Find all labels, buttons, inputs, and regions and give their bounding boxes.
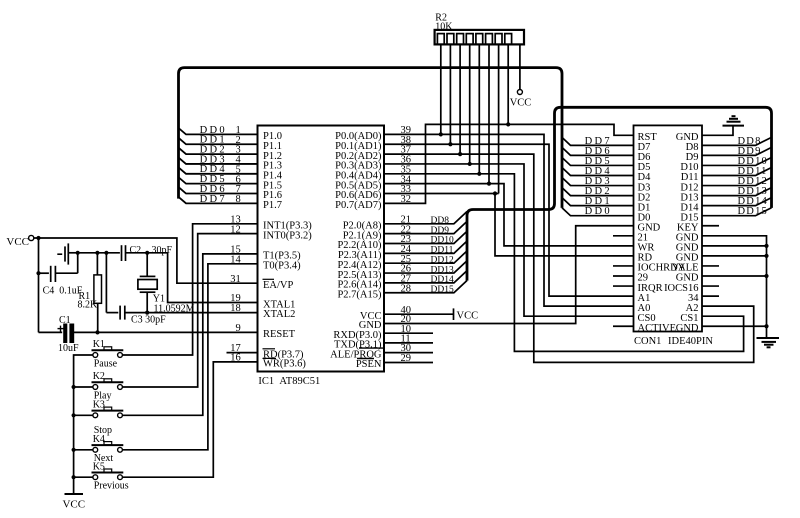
svg-text:K5: K5 — [93, 461, 105, 472]
bus DD0-DD7 (MCU P1 to IDE D0-D7) — [179, 68, 563, 208]
wire stub MCU pin 17 RD — [227, 352, 258, 354]
svg-text:DD11: DD11 — [431, 246, 454, 256]
wire stub CON1 21 — [613, 235, 634, 237]
svg-text:DD15: DD15 — [431, 285, 454, 295]
node junction rail — [72, 475, 76, 479]
node junction C3 branch — [104, 251, 108, 255]
wire IDE D11 to bus DD11 — [702, 168, 772, 176]
wire MCU pin 26 P2.5 to bus DD13 — [384, 261, 467, 273]
wire P0.1/AD1 (pin38) to IDE A1 — [384, 144, 634, 296]
resistor R1 8.2K — [96, 253, 98, 275]
svg-text:VCC: VCC — [6, 236, 29, 248]
svg-text:K1: K1 — [93, 339, 105, 350]
wire MCU pin 23 P2.2 to bus DD10 — [384, 231, 467, 243]
svg-text:C4 0.1uF: C4 0.1uF — [43, 286, 83, 297]
svg-text:IDE40PIN: IDE40PIN — [668, 336, 713, 347]
svg-text:IC1 AT89C51: IC1 AT89C51 — [258, 376, 320, 387]
svg-text:DD15: DD15 — [738, 206, 768, 217]
resistor R2 element 7 — [495, 34, 502, 45]
svg-text:T0(P3.4): T0(P3.4) — [263, 261, 301, 272]
wire CON1 GND row 12 — [702, 245, 767, 247]
wire P0.5/AD5 (pin34) to IDE WR — [384, 184, 634, 246]
wire IDE D15 to bus DD15 — [702, 208, 772, 216]
crystal Y1 11.0592M — [146, 253, 148, 277]
pushbutton K4 Next — [93, 447, 98, 452]
wire P0.3/AD3 (pin36) to IDE CS0 — [384, 164, 634, 316]
svg-text:INT0(P3.2): INT0(P3.2) — [263, 230, 312, 241]
svg-text:DD8: DD8 — [431, 216, 450, 226]
wire MCU pin 14 T0 to K4 — [122, 264, 257, 450]
wire P0.4/AD4 (pin35) to IDE CS1 — [384, 174, 744, 352]
resistor R2 element 1 — [437, 34, 444, 45]
svg-text:30pF: 30pF — [152, 245, 173, 256]
node junction Y1 top / XTAL1 — [145, 251, 149, 255]
node junction R2 pin 4 — [468, 162, 472, 166]
wire IDE D9 to bus DD9 — [702, 147, 772, 155]
svg-text:GND: GND — [676, 323, 699, 334]
wire P0.0/AD0 (pin39) to IDE A0 — [384, 134, 634, 306]
wire XTAL1 node to MCU pin 19 — [168, 253, 258, 303]
wire IDE D13 to bus DD13 — [702, 188, 772, 196]
wire stub CON1 YALE — [702, 265, 719, 267]
node junction R2 pin 3 — [458, 152, 462, 156]
node junction Y1 bottom / XTAL2 — [145, 311, 149, 315]
svg-text:P2.7(A15): P2.7(A15) — [337, 289, 382, 300]
svg-text:RESET: RESET — [263, 329, 296, 340]
svg-text:DD0: DD0 — [585, 206, 612, 217]
capacitor C3 30pF — [105, 253, 107, 313]
wire bus entry DD1 to MCU pin 2 — [179, 138, 258, 144]
svg-text:C1: C1 — [59, 315, 71, 326]
wire bus entry DD2 to IDE D2 — [562, 188, 634, 196]
wire IDE D14 to bus DD14 — [702, 198, 772, 206]
resistor R2 element 2 — [447, 34, 454, 45]
wire rail to button — [74, 386, 93, 388]
svg-text:K4: K4 — [93, 434, 105, 445]
svg-text:DD12: DD12 — [431, 255, 454, 265]
node junction GND rail — [764, 254, 768, 258]
wire bus entry DD6 to MCU pin 7 — [179, 187, 258, 193]
wire MCU pin 15 T1 to K3 — [122, 254, 257, 415]
wire P0.6/AD6 (pin33) to IDE RD — [384, 193, 499, 195]
node junction R2 pin 5 — [477, 172, 481, 176]
wire MCU pin20 GND to IDE GND — [384, 226, 634, 324]
svg-text:EA/VP: EA/VP — [263, 280, 293, 291]
wire R2 pin 6 down — [488, 44, 490, 183]
node junction GND rail — [764, 274, 768, 278]
node junction R1 bottom / RESET — [95, 330, 99, 334]
wire RESET node to MCU pin 9 — [74, 331, 258, 333]
capacitor C4 0.1uF — [39, 272, 49, 274]
svg-text:VCC: VCC — [62, 499, 85, 511]
svg-text:8.2K: 8.2K — [78, 300, 99, 311]
svg-text:VCC: VCC — [457, 310, 479, 321]
node junction R2 pin 2 — [448, 142, 452, 146]
wire bus entry DD5 to MCU pin 6 — [179, 177, 258, 183]
IC IC1 AT89C51 microcontroller — [258, 126, 385, 372]
wire stub CON1 ACTIVE — [613, 325, 634, 327]
power VCC at MCU pin 40 — [384, 313, 454, 315]
wire MCU pin 27 P2.6 to bus DD14 — [384, 271, 467, 283]
svg-text:DD14: DD14 — [431, 275, 454, 285]
wire bus entry DD2 to MCU pin 3 — [179, 148, 258, 154]
wire CON1 GND row 20 — [702, 325, 767, 327]
node junction rail — [72, 413, 76, 417]
node junction R1 top — [95, 251, 99, 255]
svg-text:WR(P3.6): WR(P3.6) — [263, 359, 306, 370]
wire stub CON1 KEY — [702, 225, 719, 227]
pushbutton K2 Play — [93, 385, 98, 390]
wire bus entry DD4 to IDE D4 — [562, 168, 634, 176]
node junction GND rail — [764, 244, 768, 248]
resistor R2 element 3 — [457, 34, 464, 45]
wire IDE D10 to bus DD10 — [702, 157, 772, 165]
wire MCU pin 28 P2.7 to bus DD15 — [384, 280, 467, 292]
wire bus entry DD7 to MCU pin 8 — [179, 197, 258, 203]
wire IDE D8 to bus DD8 — [702, 137, 772, 145]
resistor R2 element 4 — [466, 34, 473, 45]
wire bus entry DD0 to IDE D0 — [562, 208, 634, 216]
node junction R2 pin 7 — [493, 191, 497, 195]
wire P0.7/AD7 (pin32) to IDE RST — [384, 124, 634, 203]
wire rail to button — [74, 449, 93, 451]
svg-text:C3 30pF: C3 30pF — [131, 314, 166, 325]
wire stub CON1 IRQR — [613, 285, 634, 287]
svg-text:DD7: DD7 — [200, 194, 227, 205]
node junction rail — [72, 385, 76, 389]
wire R2 pin 2 down — [449, 44, 451, 144]
wire MCU pin 12 INT0 to K2 — [122, 234, 257, 387]
wire stub CON1 29 — [613, 275, 634, 277]
svg-text:DD9: DD9 — [431, 226, 450, 236]
svg-text:10uF: 10uF — [58, 343, 79, 354]
wire MCU pin 13 INT1 to K1 — [122, 224, 257, 355]
wire IDE D12 to bus DD12 — [702, 178, 772, 186]
svg-text:Previous: Previous — [94, 481, 129, 492]
wire stub MCU pin 30 — [384, 352, 433, 354]
pushbutton K1 Pause — [93, 353, 98, 358]
svg-text:ACTIVE: ACTIVE — [638, 323, 677, 334]
node junction GND rail — [764, 324, 768, 328]
wire XTAL2 node to MCU pin 18 — [125, 312, 258, 314]
svg-text:VCC: VCC — [510, 97, 532, 108]
wire rail to button — [74, 476, 93, 478]
svg-text:K3: K3 — [93, 399, 105, 410]
capacitor (polarized, top left) — [57, 253, 62, 255]
svg-text:P1.7: P1.7 — [263, 200, 282, 211]
wire C4 to node row — [77, 253, 79, 273]
ground (bottom right) — [757, 337, 780, 339]
wire bus entry DD0 to MCU pin 1 — [179, 128, 258, 134]
bus DD8-DD15 (MCU P2 to IDE D8-D15) — [467, 107, 772, 280]
wire node row to C2 — [78, 252, 120, 254]
wire VCC branch down (left) — [38, 238, 40, 332]
svg-text:DD10: DD10 — [431, 236, 454, 246]
node junction C4 row — [36, 271, 40, 275]
wire stub CON1 IOCS16 — [702, 285, 719, 287]
wire R2 pin 7 down — [498, 44, 500, 193]
resistor R2 element 8 — [505, 34, 512, 45]
power VCC for R2 — [519, 44, 521, 89]
wire bus entry DD3 to IDE D3 — [562, 178, 634, 186]
pushbutton K5 Previous — [93, 475, 98, 480]
capacitor C1 10uF (electrolytic) — [39, 331, 63, 333]
capacitor C2 30pF — [121, 245, 123, 261]
wire R2 pin 4 down — [469, 44, 471, 164]
wire stub CON1 IOCHRDY — [613, 265, 634, 267]
wire bus entry DD6 to IDE D6 — [562, 147, 634, 155]
node junction node row / C4 — [76, 251, 80, 255]
wire bus entry DD4 to MCU pin 5 — [179, 167, 258, 173]
svg-text:PSEN: PSEN — [356, 359, 382, 370]
svg-text:C2: C2 — [130, 245, 142, 256]
wire rail to button — [74, 414, 93, 416]
wire bus entry DD3 to MCU pin 4 — [179, 158, 258, 164]
wire MCU pin 25 P2.4 to bus DD12 — [384, 251, 467, 263]
wire R2 pin 3 down — [459, 44, 461, 154]
power VCC (bottom of button rail) — [65, 493, 84, 495]
node junction R2 pin 8 — [506, 122, 510, 126]
wire R2 pin 8 down — [507, 44, 509, 124]
svg-text:K2: K2 — [93, 371, 105, 382]
node junction rail — [72, 448, 76, 452]
wire MCU pin 21 P2.0 to bus DD8 — [384, 212, 467, 224]
wire R2 pin 5 down — [478, 44, 480, 173]
resistor R2 element 5 — [476, 34, 483, 45]
wire bus entry DD7 to IDE D7 — [562, 137, 634, 145]
wire VCC rail to MCU pin 31 EA/VP — [34, 238, 258, 283]
wire button common rail — [74, 355, 93, 494]
wire P0.2/AD2 (pin37) to IDE A2 — [384, 154, 754, 362]
wire MCU pin 16 WR to K5 — [122, 362, 257, 477]
wire bus entry DD1 to IDE D1 — [562, 198, 634, 206]
pushbutton K3 Stop — [93, 413, 98, 418]
resistor R2 element 6 — [486, 34, 493, 45]
wire R2 pin 1 down — [440, 44, 442, 134]
ground (inverted, above CON1) — [702, 126, 733, 135]
svg-text:DD13: DD13 — [431, 265, 454, 275]
node junction R2 pin 6 — [487, 182, 491, 186]
node junction R2 pin 1 — [439, 132, 443, 136]
wire CON1 GND row 15 — [702, 275, 767, 277]
wire stub CON1 34 — [702, 295, 719, 297]
wire CON1 GND rail (right) — [702, 236, 767, 338]
svg-text:P0.7(AD7): P0.7(AD7) — [335, 200, 382, 211]
wire MCU pin 24 P2.3 to bus DD11 — [384, 241, 467, 253]
wire stub MCU pin 11 — [384, 342, 433, 344]
svg-text:Pause: Pause — [94, 358, 118, 369]
node junction VCC rail — [36, 236, 40, 240]
connector CON1 IDE40PIN body — [634, 125, 703, 331]
svg-text:XTAL2: XTAL2 — [263, 309, 295, 320]
wire MCU pin 22 P2.1 to bus DD9 — [384, 221, 467, 233]
wire stub MCU pin 29 — [384, 362, 433, 364]
wire CON1 GND row 13 — [702, 255, 767, 257]
svg-text:CON1: CON1 — [634, 336, 661, 347]
wire stub MCU pin 10 — [384, 332, 433, 334]
wire bus entry DD5 to IDE D5 — [562, 157, 634, 165]
